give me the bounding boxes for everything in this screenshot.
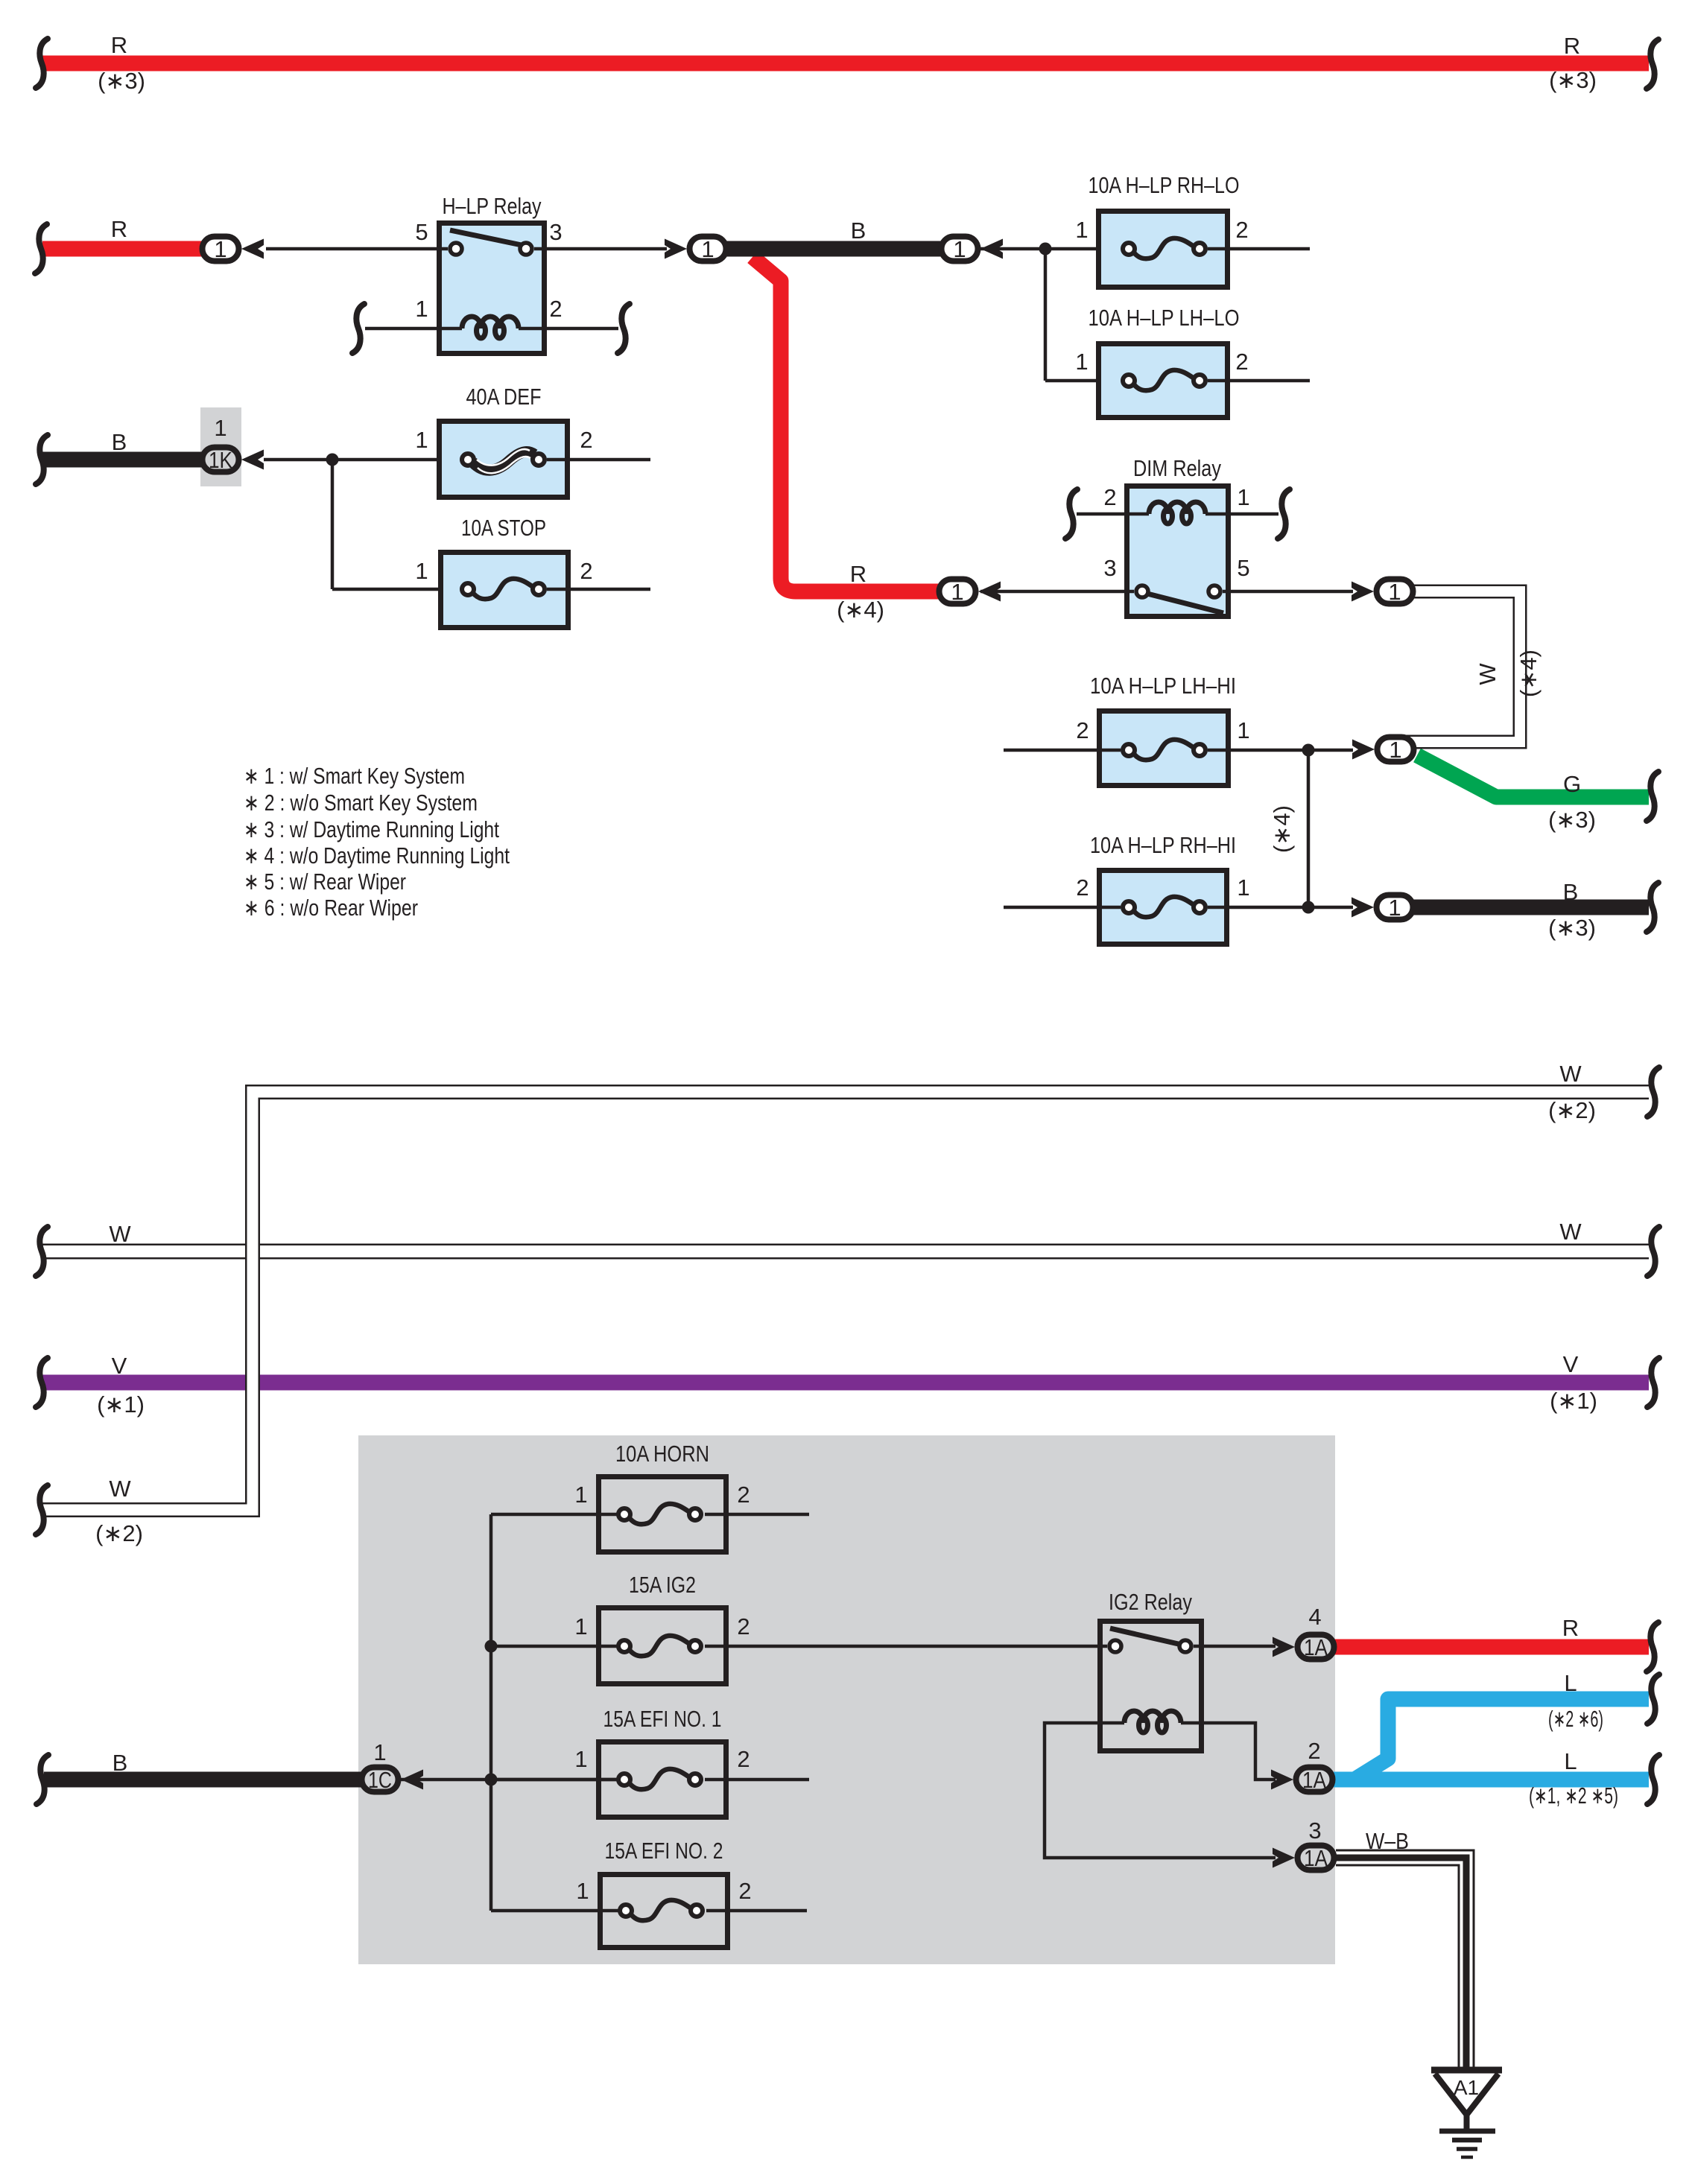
break symbol DIM coil left xyxy=(1065,489,1077,539)
svg-text:1: 1 xyxy=(1389,737,1401,763)
wire connector to H-LP fuses xyxy=(980,247,1121,251)
svg-text:∗ 4 : w/o Daytime Running Ligh: ∗ 4 : w/o Daytime Running Light xyxy=(244,842,510,869)
arrow into connector 1 (DIM pin3) xyxy=(978,582,1001,602)
wire DIM pin5 lead xyxy=(1223,590,1353,594)
fuse element 10A H-LP LH-LO xyxy=(1123,370,1205,390)
break symbol left B row xyxy=(36,435,48,484)
svg-text:B: B xyxy=(113,1750,128,1776)
wire H-LP coil pin2 lead xyxy=(519,327,618,331)
fuse element 10A STOP xyxy=(462,579,545,599)
connector 1 (left of H-LP relay) xyxy=(203,237,239,261)
wire red drop from B node to DIM relay pin 3 xyxy=(752,257,943,591)
svg-text:1: 1 xyxy=(415,558,428,584)
svg-text:∗ 5 : w/ Rear Wiper: ∗ 5 : w/ Rear Wiper xyxy=(244,869,406,895)
connector 1 (B node left) xyxy=(690,237,726,261)
svg-text:10A H–LP RH–LO: 10A H–LP RH–LO xyxy=(1089,172,1240,198)
svg-text:3: 3 xyxy=(1103,555,1116,581)
junction dot RH-LO/LH-LO xyxy=(1039,243,1052,255)
svg-text:W–B: W–B xyxy=(1366,1828,1409,1854)
wire W (*2) dogleg xyxy=(42,1092,1649,1510)
junction/relay block (gray box) xyxy=(358,1435,1335,1964)
svg-text:1: 1 xyxy=(574,1482,587,1508)
svg-text:IG2 Relay: IG2 Relay xyxy=(1109,1589,1192,1615)
svg-text:1: 1 xyxy=(214,236,226,262)
svg-text:1: 1 xyxy=(574,1746,587,1772)
connector 1C xyxy=(362,1768,399,1792)
svg-text:2: 2 xyxy=(1076,874,1089,901)
break symbol left row2 xyxy=(35,224,47,273)
wire fuse bus vertical xyxy=(489,1514,493,1911)
svg-text:1: 1 xyxy=(953,236,966,262)
relay H-LP Relay box xyxy=(440,223,545,354)
fusible link element 40A DEF xyxy=(462,449,545,473)
svg-text:2: 2 xyxy=(1308,1738,1320,1764)
svg-text:V: V xyxy=(1563,1351,1579,1377)
wire into EFI1 fuse (from bus) xyxy=(491,1778,618,1782)
connector 1A pin2 xyxy=(1296,1768,1333,1792)
svg-text:B: B xyxy=(1563,879,1579,905)
svg-text:1: 1 xyxy=(415,427,428,453)
svg-text:∗ 6 : w/o Rear Wiper: ∗ 6 : w/o Rear Wiper xyxy=(244,895,418,921)
wire W jumper DIM pin5 to LH-HI node xyxy=(1397,591,1520,742)
fuse 10A H-LP LH-LO box xyxy=(1099,344,1228,418)
wire 1C to EFI1 fuse xyxy=(401,1778,618,1782)
svg-text:1: 1 xyxy=(576,1878,589,1904)
svg-text:10A H–LP LH–HI: 10A H–LP LH–HI xyxy=(1090,673,1236,699)
connector 1 (DIM pin5 out) xyxy=(1377,580,1413,604)
fuse element 15A EFI NO.2 xyxy=(620,1900,703,1920)
break symbol R IG2 right xyxy=(1647,1622,1658,1672)
svg-text:40A DEF: 40A DEF xyxy=(466,384,542,410)
svg-text:1: 1 xyxy=(1237,717,1249,743)
svg-text:2: 2 xyxy=(549,296,562,322)
wire DEF output stub xyxy=(547,458,650,462)
wire into EFI2 fuse xyxy=(491,1909,619,1913)
svg-text:∗ 3 : w/ Daytime Running Light: ∗ 3 : w/ Daytime Running Light xyxy=(244,816,499,842)
arrow into connector 1 (RH-HI) xyxy=(1352,898,1374,918)
svg-text:3: 3 xyxy=(1308,1818,1321,1844)
svg-text:2: 2 xyxy=(580,427,592,453)
svg-text:L: L xyxy=(1564,1748,1577,1774)
wire relay pin3 lead xyxy=(534,247,667,251)
arrow into connector 1 (right of H-LP relay) xyxy=(665,239,687,259)
svg-text:1: 1 xyxy=(214,415,226,441)
svg-text:2: 2 xyxy=(737,1746,750,1772)
wire G headlight LH-HI feed xyxy=(1417,755,1649,797)
arrow into connector 1 from fuses xyxy=(980,239,1003,259)
wire R (*3) top battery feed xyxy=(42,56,1649,72)
arrow into connector 1 xyxy=(241,239,264,259)
fuse 15A EFI NO.1 box xyxy=(599,1742,726,1818)
connector 1K gray highlight xyxy=(200,407,241,486)
break symbol H-LP coil right xyxy=(618,304,630,353)
svg-text:∗ 2 : w/o Smart Key System: ∗ 2 : w/o Smart Key System xyxy=(244,790,478,816)
svg-text:15A IG2: 15A IG2 xyxy=(629,1572,696,1598)
connector 1A pin4 xyxy=(1298,1635,1334,1660)
connector 1A pin3 xyxy=(1298,1846,1334,1870)
svg-text:1: 1 xyxy=(951,579,963,605)
arrow into 1A pin2 xyxy=(1271,1770,1293,1790)
svg-text:1: 1 xyxy=(1075,217,1088,243)
connector 1 (RH-HI out) xyxy=(1377,895,1413,920)
svg-text:W: W xyxy=(109,1476,131,1502)
wire relay pin5 lead xyxy=(266,247,448,251)
fuse 10A H-LP RH-LO box xyxy=(1099,212,1228,288)
IG2 relay coil xyxy=(1124,1711,1181,1733)
break symbol DIM coil right xyxy=(1278,489,1290,539)
wire junction down to LH-LO xyxy=(1044,249,1048,381)
svg-text:15A EFI NO. 1: 15A EFI NO. 1 xyxy=(603,1706,722,1732)
svg-text:R: R xyxy=(1564,33,1580,59)
wire into HORN fuse xyxy=(491,1513,618,1517)
wire L (*1, *2 *5) xyxy=(1334,1772,1649,1788)
connector 1K xyxy=(203,448,239,472)
svg-text:G: G xyxy=(1563,771,1581,797)
wire R IG2 output xyxy=(1334,1639,1649,1655)
wire EFI2 output stub xyxy=(706,1909,807,1913)
wire junction down to STOP xyxy=(331,460,335,589)
break symbol top-right xyxy=(1647,39,1658,89)
break symbol W mid left xyxy=(36,1227,48,1276)
wire LH-HI input stub xyxy=(1004,749,1121,752)
svg-text:1: 1 xyxy=(1237,484,1249,510)
svg-text:1: 1 xyxy=(1237,874,1249,901)
wire LH-LO output stub xyxy=(1208,379,1310,383)
wire IG2 coil right to pin2 xyxy=(1181,1723,1276,1780)
svg-text:1A: 1A xyxy=(1304,1845,1328,1871)
junction dot bus/EFI1 xyxy=(485,1774,498,1786)
svg-text:1: 1 xyxy=(1388,579,1401,605)
break symbol H-LP coil left xyxy=(352,304,364,353)
svg-text:(∗1): (∗1) xyxy=(1550,1388,1597,1414)
svg-text:10A STOP: 10A STOP xyxy=(461,515,546,541)
wire HORN output stub xyxy=(705,1513,809,1517)
wire L (*2 *6) xyxy=(1334,1699,1649,1780)
svg-text:W: W xyxy=(1559,1061,1582,1087)
svg-text:DIM Relay: DIM Relay xyxy=(1133,455,1221,481)
svg-text:R: R xyxy=(1562,1615,1579,1641)
wire RH-HI output xyxy=(1208,906,1353,910)
svg-text:R: R xyxy=(111,32,127,58)
svg-text:1: 1 xyxy=(415,296,428,322)
wire H-LP coil pin1 lead xyxy=(365,327,462,331)
wire IG2 coil left to pin3 xyxy=(1045,1723,1276,1858)
break symbol L lower right xyxy=(1647,1755,1659,1804)
junction dot bus/IG2 xyxy=(485,1640,498,1653)
IG2 relay switch blade xyxy=(1110,1628,1182,1645)
break symbol V right xyxy=(1647,1358,1659,1407)
svg-text:(∗3): (∗3) xyxy=(1548,915,1596,941)
wire B to connector 1K xyxy=(42,452,209,468)
svg-text:R: R xyxy=(850,561,866,587)
svg-text:(∗4): (∗4) xyxy=(1515,650,1542,697)
svg-text:(∗4): (∗4) xyxy=(1269,805,1295,853)
break symbol G right xyxy=(1647,772,1658,821)
svg-text:(∗2): (∗2) xyxy=(95,1520,143,1546)
wire B to connector 1C xyxy=(44,1772,376,1788)
ground A1 xyxy=(1431,2070,1502,2157)
svg-text:1A: 1A xyxy=(1302,1767,1326,1793)
wire IG2 relay pin4 lead xyxy=(1194,1645,1276,1648)
svg-text:5: 5 xyxy=(1237,555,1249,581)
junction dot LH-HI/RH-HI xyxy=(1302,744,1315,757)
svg-text:W: W xyxy=(1559,1219,1582,1245)
fuse 15A EFI NO.2 box xyxy=(601,1875,728,1948)
break symbol W dogleg bottom-left xyxy=(36,1485,48,1534)
break symbol W mid right xyxy=(1647,1227,1659,1276)
svg-text:3: 3 xyxy=(549,219,562,245)
H-LP relay contact pin5 xyxy=(450,243,462,255)
svg-text:B: B xyxy=(851,218,866,244)
svg-text:15A EFI NO. 2: 15A EFI NO. 2 xyxy=(605,1838,723,1864)
svg-text:A1: A1 xyxy=(1454,2076,1479,2099)
svg-text:(∗1, ∗2 ∗5): (∗1, ∗2 ∗5) xyxy=(1529,1783,1618,1809)
fuse element 10A HORN xyxy=(618,1504,701,1524)
arrow into connector 1C xyxy=(401,1770,423,1790)
break symbol W dogleg top-right xyxy=(1647,1067,1659,1117)
wire LH-HI output xyxy=(1208,749,1353,752)
wire 1K to DEF fuse xyxy=(264,458,460,462)
wire into LH-LO fuse xyxy=(1045,379,1121,383)
wire junction down to RH-HI xyxy=(1307,750,1311,907)
wire IG2 fuse to IG2 relay xyxy=(705,1645,1107,1648)
wire STOP output stub xyxy=(547,588,650,591)
IG2 relay contact right xyxy=(1179,1640,1191,1652)
fuse 15A IG2 box xyxy=(599,1608,726,1684)
connector 1 (LH-HI out) xyxy=(1378,737,1414,762)
wire RH-HI input stub xyxy=(1004,906,1121,910)
DIM relay switch blade xyxy=(1147,594,1223,613)
wire DIM coil pin1 lead xyxy=(1205,512,1278,516)
svg-text:(∗2 ∗6): (∗2 ∗6) xyxy=(1548,1706,1603,1732)
arrow into connector 1 (DIM pin5) xyxy=(1352,582,1374,602)
svg-text:1A: 1A xyxy=(1304,1634,1328,1660)
junction dot DEF/STOP xyxy=(326,454,339,466)
svg-text:2: 2 xyxy=(737,1482,750,1508)
wire B headlight RH-HI feed xyxy=(1413,900,1649,915)
svg-text:2: 2 xyxy=(1076,717,1089,743)
arrow into connector 1 (LH-HI) xyxy=(1352,740,1375,760)
svg-text:1C: 1C xyxy=(368,1767,392,1793)
break symbol B right xyxy=(1647,883,1658,932)
wire W-B to ground xyxy=(1336,1858,1466,2071)
break symbol L upper right xyxy=(1647,1674,1659,1724)
fuse element 10A H-LP RH-LO xyxy=(1123,238,1205,258)
svg-text:2: 2 xyxy=(1235,217,1248,243)
fuse 10A H-LP LH-HI box xyxy=(1100,711,1229,786)
H-LP relay contact pin3 xyxy=(520,243,532,255)
DIM relay contact pin3 xyxy=(1136,585,1148,597)
wire into IG2 fuse xyxy=(491,1645,618,1648)
svg-text:2: 2 xyxy=(737,1613,750,1639)
svg-text:10A HORN: 10A HORN xyxy=(615,1441,709,1467)
wire EFI1 output stub xyxy=(705,1778,809,1782)
fuse element 15A IG2 xyxy=(618,1636,701,1656)
svg-text:L: L xyxy=(1564,1670,1577,1696)
svg-text:2: 2 xyxy=(1103,484,1116,510)
arrow into connector 1K xyxy=(241,450,264,470)
svg-text:W: W xyxy=(1474,663,1501,685)
svg-text:2: 2 xyxy=(738,1878,751,1904)
relay DIM Relay box xyxy=(1127,486,1229,617)
svg-text:5: 5 xyxy=(415,219,428,245)
break symbol top-left xyxy=(36,39,48,88)
svg-text:10A H–LP LH–LO: 10A H–LP LH–LO xyxy=(1089,305,1240,331)
wire R into connector 1 (H-LP relay row) xyxy=(42,241,206,257)
fuse element 15A EFI NO.1 xyxy=(618,1769,701,1789)
connector 1 (B node right) xyxy=(942,237,978,261)
fuse element 10A H-LP LH-HI xyxy=(1123,740,1205,760)
DIM relay contact pin5 xyxy=(1208,585,1220,597)
wire DIM pin3 lead xyxy=(980,590,1134,594)
junction dot RH-HI out xyxy=(1302,901,1315,914)
IG2 relay contact left xyxy=(1109,1640,1121,1652)
fuse 10A H-LP RH-HI box xyxy=(1100,871,1227,945)
wire RH-LO output stub xyxy=(1208,247,1310,251)
fuse 10A STOP box xyxy=(441,553,568,628)
fuse 10A HORN box xyxy=(599,1477,726,1552)
svg-text:H–LP Relay: H–LP Relay xyxy=(443,193,542,219)
fuse element 10A H-LP RH-HI xyxy=(1123,897,1205,917)
svg-text:1: 1 xyxy=(373,1739,386,1765)
svg-text:(∗2): (∗2) xyxy=(1548,1097,1596,1123)
svg-text:(∗3): (∗3) xyxy=(98,68,145,94)
relay IG2 Relay box xyxy=(1100,1622,1202,1751)
svg-text:10A H–LP RH–HI: 10A H–LP RH–HI xyxy=(1090,832,1236,858)
wire into STOP fuse xyxy=(332,588,460,591)
svg-text:1: 1 xyxy=(574,1613,587,1639)
svg-text:V: V xyxy=(112,1353,127,1379)
fuse 40A DEF box xyxy=(440,422,568,498)
svg-text:2: 2 xyxy=(1235,349,1248,375)
wire DIM coil pin2 lead xyxy=(1077,512,1149,516)
svg-text:4: 4 xyxy=(1308,1604,1321,1630)
connector 1 (DIM pin3) xyxy=(940,580,976,604)
DIM relay coil xyxy=(1149,502,1205,524)
svg-text:(∗4): (∗4) xyxy=(837,597,884,623)
svg-text:(∗1): (∗1) xyxy=(97,1391,145,1418)
svg-text:∗ 1 : w/ Smart Key System: ∗ 1 : w/ Smart Key System xyxy=(244,763,465,789)
arrow into 1A pin4 xyxy=(1273,1637,1295,1657)
svg-text:2: 2 xyxy=(580,558,592,584)
svg-text:1: 1 xyxy=(1388,895,1401,921)
svg-text:1: 1 xyxy=(701,236,714,262)
break symbol V left xyxy=(36,1358,48,1407)
svg-text:B: B xyxy=(112,429,127,455)
H-LP relay switch blade xyxy=(450,230,522,245)
wire B node to fuses xyxy=(724,241,945,257)
break symbol B bottom-left xyxy=(37,1755,48,1804)
H-LP relay coil xyxy=(462,317,519,338)
svg-text:W: W xyxy=(109,1221,131,1247)
arrow into 1A pin3 xyxy=(1273,1848,1295,1868)
svg-text:1: 1 xyxy=(1075,349,1088,375)
wire V full-width xyxy=(42,1375,1649,1391)
svg-text:R: R xyxy=(111,216,127,242)
svg-text:(∗3): (∗3) xyxy=(1549,67,1597,93)
svg-text:(∗3): (∗3) xyxy=(1548,807,1596,833)
svg-text:1K: 1K xyxy=(209,447,232,473)
wire W full-width xyxy=(42,1244,1649,1260)
